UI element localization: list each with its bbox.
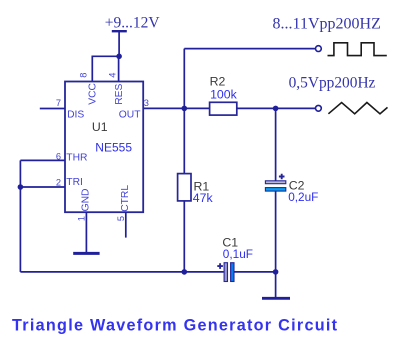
svg-text:2: 2 — [56, 177, 61, 187]
ground C2 — [262, 297, 290, 300]
svg-text:OUT: OUT — [119, 109, 141, 120]
svg-text:0,2uF: 0,2uF — [288, 190, 318, 204]
label C2 value 0,2uF — [288, 190, 318, 204]
pin 2 number — [56, 177, 61, 187]
svg-text:0,5Vpp200Hz: 0,5Vpp200Hz — [289, 75, 376, 92]
node OUT junction — [182, 106, 188, 112]
svg-text:5: 5 — [116, 216, 126, 221]
wire pin2 TRI stub — [20, 186, 65, 188]
node TRI junction — [18, 184, 24, 190]
svg-text:CTRL: CTRL — [120, 185, 131, 212]
label C1 value 0,1uF — [223, 247, 253, 261]
label C1 — [222, 235, 238, 249]
label C2 — [289, 179, 305, 193]
svg-text:8...11Vpp200HZ: 8...11Vpp200HZ — [273, 15, 381, 32]
svg-text:100k: 100k — [210, 88, 238, 102]
svg-text:VCC: VCC — [88, 82, 99, 104]
pin VCC label — [88, 82, 99, 104]
pin TRI label — [66, 177, 83, 188]
op-amp U1 NE555 body — [65, 82, 143, 213]
wire pin7 DIS stub — [40, 108, 65, 110]
resistor R1 — [178, 174, 191, 201]
wire OUT pin3 to R2 — [143, 107, 209, 109]
pin 4 number — [108, 73, 118, 78]
label NE555 — [95, 141, 132, 155]
wire pin6 THR stub — [20, 159, 65, 161]
capacitor C2 top plate — [265, 181, 285, 184]
label R1 — [194, 180, 210, 194]
terminal square output — [316, 46, 322, 52]
capacitor C1 plus sign — [217, 263, 223, 269]
pin THR label — [66, 153, 87, 164]
resistor R2 — [210, 102, 237, 115]
terminal triangle output — [316, 105, 322, 111]
power rail bar — [112, 30, 127, 32]
pin DIS label — [67, 109, 84, 120]
wire pin5 CTRL stub — [125, 212, 127, 237]
svg-text:47k: 47k — [193, 191, 214, 205]
label R1 value 47k — [193, 191, 214, 205]
node triangle junction — [273, 106, 279, 112]
pin CTRL label — [120, 185, 131, 212]
svg-text:7: 7 — [56, 98, 61, 108]
wire THR left vertical — [19, 160, 21, 272]
wire square branch horizontal — [184, 48, 315, 50]
pin RES label — [114, 83, 125, 104]
svg-text:+9...12V: +9...12V — [105, 14, 161, 31]
ground IC — [73, 252, 99, 255]
wire pin1 GND vertical — [85, 212, 87, 253]
triangle waveform symbol — [328, 103, 387, 114]
wire R2 to triangle node — [237, 107, 316, 109]
pin 6 number — [56, 151, 61, 161]
label U1 — [92, 120, 108, 134]
label triangle output — [289, 75, 376, 92]
capacitor C1 left plate — [224, 263, 227, 282]
pin 7 number — [56, 98, 61, 108]
pin GND label — [81, 189, 92, 212]
power +9...12V label — [105, 14, 161, 31]
capacitor C1 right plate — [231, 263, 234, 282]
wire pin8 vertical — [91, 56, 93, 82]
label R2 — [210, 75, 226, 89]
pin 3 number — [144, 98, 149, 108]
node C1 right junction — [273, 269, 279, 275]
svg-text:Triangle Waveform Generator Ci: Triangle Waveform Generator Circuit — [12, 316, 338, 334]
capacitor C2 plus sign — [279, 174, 285, 180]
node R1 bottom junction — [182, 269, 188, 275]
wire bottom feedback left — [20, 271, 223, 273]
svg-text:4: 4 — [108, 73, 118, 78]
label R2 value 100k — [210, 88, 238, 102]
wire C1 right to junction — [234, 271, 275, 273]
svg-text:THR: THR — [66, 153, 87, 164]
svg-text:DIS: DIS — [67, 109, 84, 120]
wire R1 top vertical — [183, 108, 185, 173]
svg-text:3: 3 — [144, 98, 149, 108]
wire C2 bottom vertical — [275, 191, 277, 298]
capacitor C2 bottom plate — [265, 188, 285, 192]
pin OUT label — [119, 109, 141, 120]
square waveform symbol — [328, 43, 387, 56]
pin 8 number — [78, 73, 88, 78]
wire C2 top vertical — [275, 108, 277, 180]
svg-text:TRI: TRI — [66, 177, 83, 188]
pin 5 number — [116, 216, 126, 221]
wire node to pin8 horizontal — [92, 55, 119, 57]
wire R1 bottom vertical — [183, 201, 185, 272]
wire pin4 vertical — [118, 56, 120, 81]
wire power vertical to node — [118, 31, 120, 56]
wire square branch vertical — [183, 49, 185, 109]
label square output — [273, 15, 381, 32]
svg-text:1: 1 — [76, 216, 86, 221]
svg-text:GND: GND — [81, 189, 92, 212]
svg-text:R2: R2 — [210, 75, 226, 89]
svg-text:0,1uF: 0,1uF — [223, 247, 253, 261]
svg-text:RES: RES — [114, 83, 125, 104]
pin 1 number — [76, 216, 86, 221]
node power junction — [116, 54, 122, 60]
svg-text:NE555: NE555 — [95, 141, 132, 155]
svg-text:8: 8 — [78, 73, 88, 78]
title text — [12, 316, 338, 334]
svg-text:U1: U1 — [92, 120, 108, 134]
